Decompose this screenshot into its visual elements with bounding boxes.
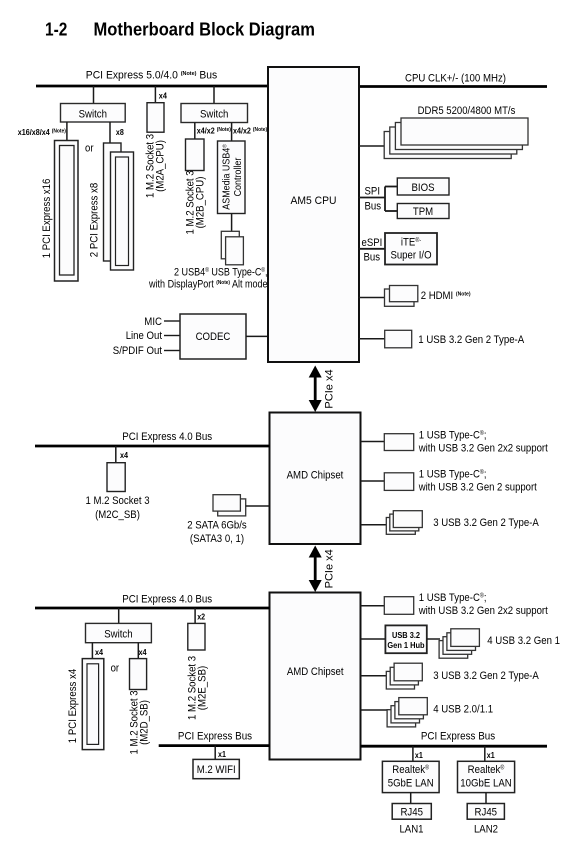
port: USB gen1 stack 2 xyxy=(447,633,476,651)
arrow: PCIe x4 chipset to chipset xyxy=(309,546,322,593)
wire: switch1 to PCIe x16 slot xyxy=(66,122,68,141)
svg-text:2 SATA 6Gb/s: 2 SATA 6Gb/s xyxy=(187,520,247,532)
wire: chipset2 to 4x USB2 xyxy=(361,709,390,711)
port: SATA front box xyxy=(213,495,240,511)
wire: switch1 to PCIe x8 slot xyxy=(109,122,111,144)
label: PCIe x4 (rotated, lower) xyxy=(324,549,336,588)
Realtek 5GbE LAN box xyxy=(382,761,439,792)
svg-text:1 PCI Express x16: 1 PCI Express x16 xyxy=(41,179,53,259)
port: USB2 stack 3 xyxy=(391,706,420,723)
port: USB4 front box xyxy=(226,237,244,265)
ASMedia USB4 controller box xyxy=(218,141,246,214)
wire: bus to switch2 xyxy=(213,86,215,104)
svg-text:4 USB 2.0/1.1: 4 USB 2.0/1.1 xyxy=(433,704,493,716)
svg-text:iTE: iTE xyxy=(401,237,415,249)
label: 1 M.2 Socket 3 (M2B_CPU) rotated xyxy=(185,170,207,234)
wire: PCI Express 4.0 bus line (bottom) xyxy=(35,607,270,610)
svg-text:ASMedia USB4: ASMedia USB4 xyxy=(221,148,232,210)
wire: PCI Express 4.0 bus line (mid) xyxy=(35,445,270,448)
svg-text:3 USB 3.2 Gen 2 Type-A: 3 USB 3.2 Gen 2 Type-A xyxy=(433,670,539,682)
label: 1 M.2 Socket 3 (M2A_CPU) rotated xyxy=(145,134,167,198)
svg-text:PCI Express 4.0 Bus: PCI Express 4.0 Bus xyxy=(122,594,212,606)
M.2 socket M2B box xyxy=(186,139,205,171)
svg-text:x8: x8 xyxy=(116,128,124,137)
svg-text:(M2E_SB): (M2E_SB) xyxy=(196,666,208,710)
svg-text:DDR5 5200/4800 MT/s: DDR5 5200/4800 MT/s xyxy=(418,105,516,117)
port: USB gen1 stack 1 xyxy=(451,629,480,647)
wire: SATA to chipset xyxy=(246,505,270,507)
svg-text:PCI Express Bus: PCI Express Bus xyxy=(421,730,496,742)
Realtek 10GbE LAN box xyxy=(458,761,515,792)
wire: S/PDIF to codec xyxy=(164,350,180,352)
svg-text:x4: x4 xyxy=(159,92,167,101)
wire: bus to M.2 WIFI xyxy=(214,746,216,760)
svg-text:USB Type-C: USB Type-C xyxy=(209,267,262,279)
wire: switch3 to x4 slot xyxy=(91,643,93,659)
wire: bus to switch3 xyxy=(118,608,120,624)
svg-text:x1: x1 xyxy=(218,750,226,759)
svg-text:Alt mode: Alt mode xyxy=(230,279,268,291)
svg-text:Bus: Bus xyxy=(197,70,218,82)
svg-text:x4: x4 xyxy=(95,648,103,657)
wire: PCI Express bus line (right) xyxy=(361,745,548,748)
slot: 2 PCI Express x8 front xyxy=(111,152,134,270)
svg-text:(M2B_CPU): (M2B_CPU) xyxy=(194,177,206,229)
svg-text:AMD Chipset: AMD Chipset xyxy=(287,470,344,482)
wire: MIC to codec xyxy=(164,320,180,322)
svg-text:x4/x2: x4/x2 xyxy=(233,127,253,136)
USB 3.2 Gen 1 Hub box xyxy=(385,625,426,653)
DIMM slot 3 xyxy=(390,127,517,154)
svg-text:3 USB 3.2 Gen 2 Type-A: 3 USB 3.2 Gen 2 Type-A xyxy=(433,517,539,529)
svg-text:1 PCI Express x4: 1 PCI Express x4 xyxy=(67,669,79,743)
svg-text:BIOS: BIOS xyxy=(412,182,435,194)
DIMM slot 2 xyxy=(395,123,522,150)
svg-text:eSPI: eSPI xyxy=(362,237,383,249)
svg-text:Bus: Bus xyxy=(364,252,381,264)
svg-text:(Note): (Note) xyxy=(217,127,231,133)
wire: eSPI bus xyxy=(359,248,386,250)
svg-text:x4: x4 xyxy=(120,451,128,460)
AM5 CPU box xyxy=(268,67,359,362)
label: 2 PCI Express x8 (rotated) xyxy=(89,183,101,257)
svg-text:2 USB4: 2 USB4 xyxy=(174,267,205,279)
port: USB gen1 stack 4 xyxy=(439,641,468,659)
svg-text:RJ45: RJ45 xyxy=(400,806,423,818)
port: USB gen2 stack 3 xyxy=(386,671,414,689)
svg-text:(M2D_SB): (M2D_SB) xyxy=(138,700,150,745)
svg-text:1 USB Type-C: 1 USB Type-C xyxy=(419,429,480,441)
wire: bus to realtek 10GbE xyxy=(484,746,486,761)
port: USB gen2 stack 2 xyxy=(390,667,418,685)
port: USB Type-C box (gen2) xyxy=(384,473,413,491)
wire: PCI Express bus line (left) xyxy=(159,744,270,747)
svg-text:;: ; xyxy=(484,468,487,480)
svg-text:CODEC: CODEC xyxy=(196,331,231,343)
svg-text:Realtek: Realtek xyxy=(468,764,501,776)
svg-text:x2: x2 xyxy=(197,613,205,622)
svg-text:(Note): (Note) xyxy=(52,129,66,135)
slot: 2 PCI Express x8 back xyxy=(104,143,122,261)
arrow: PCIe x4 CPU to chipset xyxy=(309,366,322,413)
svg-text:(Note): (Note) xyxy=(181,71,197,77)
svg-text:x4: x4 xyxy=(139,648,147,657)
svg-text:LAN2: LAN2 xyxy=(474,824,498,836)
svg-text:with USB 3.2 Gen 2x2 support: with USB 3.2 Gen 2x2 support xyxy=(418,605,548,617)
svg-text:®: ® xyxy=(500,764,504,771)
svg-text:;: ; xyxy=(484,592,487,604)
wire: bus to M2A xyxy=(154,86,156,103)
wire: CPU to DIMMs xyxy=(359,145,386,147)
port: USB2 stack 2 xyxy=(395,702,424,719)
wire: CPU to HDMI xyxy=(359,297,386,299)
wire: bus to M2E xyxy=(194,608,196,624)
wire: chipset2 to USB-C xyxy=(361,605,386,607)
port: USB2 stack 4 xyxy=(387,710,416,727)
M.2 socket M2C box xyxy=(107,463,125,492)
AMD Chipset box 1 xyxy=(270,413,361,545)
slot: 1 PCI Express x4 inner xyxy=(87,664,99,745)
iTE Super I/O box xyxy=(385,233,437,265)
wire: CPU CLK line xyxy=(359,85,548,88)
svg-text:MIC: MIC xyxy=(144,316,162,328)
svg-text:with DisplayPort: with DisplayPort xyxy=(148,279,216,291)
label: 1 PCI Express x4 (rotated) xyxy=(67,669,79,743)
svg-text:Line Out: Line Out xyxy=(126,330,162,342)
M.2 socket M2D box xyxy=(130,659,147,690)
wire: Line Out to codec xyxy=(164,335,180,337)
svg-text:1 M.2 Socket 3: 1 M.2 Socket 3 xyxy=(85,495,149,507)
wire: ASMedia to USB4 ports xyxy=(231,214,233,238)
wire: bus to switch1 xyxy=(93,86,95,104)
wire: switch3 to M2D xyxy=(137,643,139,659)
label: PCIe x4 (rotated) xyxy=(324,369,336,408)
svg-text:AM5 CPU: AM5 CPU xyxy=(291,195,337,207)
RJ45 box 2 xyxy=(467,804,504,820)
svg-text:RJ45: RJ45 xyxy=(475,806,498,818)
TPM box xyxy=(397,204,449,219)
svg-text:(Note): (Note) xyxy=(216,280,230,286)
wire: chipset2 to hub xyxy=(361,638,386,640)
svg-text:1 USB Type-C: 1 USB Type-C xyxy=(419,592,480,604)
svg-text:PCIe x4: PCIe x4 xyxy=(324,549,336,588)
wire: PCI Express 5.0/4.0 bus line xyxy=(36,85,269,88)
svg-text:x1: x1 xyxy=(415,751,423,760)
port: USB stack front xyxy=(393,511,422,528)
svg-text:Super I/O: Super I/O xyxy=(390,250,431,262)
slot: 1 PCI Express x16 inner xyxy=(60,146,75,276)
port: USB 3.2 box xyxy=(385,330,412,348)
port: USB stack back xyxy=(386,518,415,535)
DIMM slot 4 (back) xyxy=(384,132,511,159)
svg-text:®-: ®- xyxy=(415,237,421,244)
svg-text:S/PDIF Out: S/PDIF Out xyxy=(113,345,162,357)
svg-text:10GbE LAN: 10GbE LAN xyxy=(460,777,511,789)
svg-text:1-2: 1-2 xyxy=(45,20,67,40)
wire: hub to 4x USB stack xyxy=(427,638,440,640)
svg-text:Gen 1 Hub: Gen 1 Hub xyxy=(387,640,424,650)
svg-text:x4/x2: x4/x2 xyxy=(197,127,217,136)
svg-text:(M2A_CPU): (M2A_CPU) xyxy=(154,140,166,192)
svg-text:1 USB Type-C: 1 USB Type-C xyxy=(419,468,480,480)
label: 1 M.2 Socket 3 (M2D_SB) rotated xyxy=(129,690,151,754)
svg-text:Switch: Switch xyxy=(200,109,228,121)
port: HDMI front box xyxy=(390,286,418,302)
svg-text:PCI Express Bus: PCI Express Bus xyxy=(178,730,253,742)
wire: SPI bus bracket xyxy=(359,197,386,199)
svg-text:(Note): (Note) xyxy=(456,292,471,298)
svg-text:PCIe x4: PCIe x4 xyxy=(324,369,336,408)
DIMM slot 1 (front) xyxy=(401,118,528,145)
svg-text:x1: x1 xyxy=(487,751,495,760)
svg-text:x16/x8/x4: x16/x8/x4 xyxy=(18,128,52,137)
svg-text:2 PCI Express x8: 2 PCI Express x8 xyxy=(89,183,101,257)
port: HDMI back box xyxy=(385,289,415,306)
svg-text:M.2 WIFI: M.2 WIFI xyxy=(197,764,236,776)
wire: CPU to USB type-A xyxy=(359,338,386,340)
svg-text:4 USB 3.2 Gen 1: 4 USB 3.2 Gen 1 xyxy=(487,635,560,647)
port: USB gen1 stack 3 xyxy=(443,637,472,655)
CODEC box xyxy=(180,314,246,359)
svg-text:SPI: SPI xyxy=(365,186,381,198)
port: USB Type-C box (2x2) xyxy=(384,434,413,451)
svg-text:(M2C_SB): (M2C_SB) xyxy=(95,509,140,521)
wire: switch2 to ASMedia xyxy=(231,123,233,142)
switch box 1 xyxy=(61,104,126,123)
RJ45 box 1 xyxy=(392,804,431,820)
wire: realtek2 to RJ45 xyxy=(485,793,487,804)
svg-text:or: or xyxy=(85,143,94,155)
svg-text:Realtek: Realtek xyxy=(392,764,425,776)
wire: switch2 to M2B xyxy=(194,123,196,140)
svg-text:with USB 3.2 Gen 2 support: with USB 3.2 Gen 2 support xyxy=(418,482,537,494)
svg-text:TPM: TPM xyxy=(413,206,433,218)
svg-text:Switch: Switch xyxy=(79,109,107,121)
switch box 3 xyxy=(86,623,152,642)
svg-text:®: ® xyxy=(221,144,228,148)
BIOS box xyxy=(397,178,449,195)
port: USB2 stack 1 xyxy=(399,698,428,715)
svg-text:Controller: Controller xyxy=(233,157,244,196)
M.2 socket M2E box xyxy=(188,623,205,650)
svg-text:USB 3.2: USB 3.2 xyxy=(392,630,420,640)
port: USB Type-C box (chipset2) xyxy=(384,597,413,615)
wire: codec to CPU xyxy=(246,335,268,337)
wire: bus to M2C xyxy=(115,446,117,463)
svg-text:LAN1: LAN1 xyxy=(399,824,423,836)
M.2 socket M2A box xyxy=(147,103,164,133)
wire: chipset to USB-C gen2 xyxy=(361,480,386,482)
svg-text:(Note): (Note) xyxy=(253,127,267,133)
svg-text:2 HDMI: 2 HDMI xyxy=(421,290,456,302)
svg-text:PCI Express 4.0 Bus: PCI Express 4.0 Bus xyxy=(122,431,212,443)
label: ASMedia USB4 Controller rotated xyxy=(221,144,244,209)
wire: realtek1 to RJ45 xyxy=(410,793,412,804)
port: SATA back box xyxy=(218,499,246,516)
wire: bus to realtek 5GbE xyxy=(412,746,414,761)
port: USB4 back box xyxy=(221,231,239,258)
svg-text:CPU CLK+/- (100 MHz): CPU CLK+/- (100 MHz) xyxy=(405,73,506,85)
wire: chipset to 3x USB Type-A xyxy=(361,524,388,526)
svg-text:Bus: Bus xyxy=(365,201,382,213)
port: USB stack mid xyxy=(390,514,419,531)
svg-text:PCI Express 5.0/4.0: PCI Express 5.0/4.0 xyxy=(86,70,181,82)
AMD Chipset box 2 xyxy=(270,593,361,760)
svg-text:®: ® xyxy=(425,764,429,771)
wire: chipset to USB-C 2x2 xyxy=(361,441,386,443)
svg-text:Motherboard Block Diagram: Motherboard Block Diagram xyxy=(94,20,315,40)
svg-text:5GbE LAN: 5GbE LAN xyxy=(388,777,434,789)
M.2 WIFI box xyxy=(193,759,239,778)
switch box 2 xyxy=(181,104,248,123)
svg-text:Switch: Switch xyxy=(104,629,132,641)
svg-text:(SATA3 0, 1): (SATA3 0, 1) xyxy=(190,533,244,545)
label: 1 PCI Express x16 (rotated) xyxy=(41,179,53,259)
slot: 1 PCI Express x16 outer xyxy=(55,141,79,282)
svg-text:or: or xyxy=(111,663,120,675)
wire: chipset2 to 3x USB xyxy=(361,675,389,677)
svg-text:;: ; xyxy=(484,429,487,441)
svg-text:AMD Chipset: AMD Chipset xyxy=(287,666,344,678)
port: USB gen2 stack 1 xyxy=(394,663,422,681)
svg-text:1 USB 3.2 Gen 2 Type-A: 1 USB 3.2 Gen 2 Type-A xyxy=(418,334,524,346)
slot: 2 PCI Express x8 front inner xyxy=(116,157,129,266)
slot: 1 PCI Express x4 outer xyxy=(82,659,104,750)
label: 1 M.2 Socket 3 (M2E_SB) rotated xyxy=(187,656,209,720)
svg-text:with USB 3.2 Gen 2x2 support: with USB 3.2 Gen 2x2 support xyxy=(418,443,548,455)
